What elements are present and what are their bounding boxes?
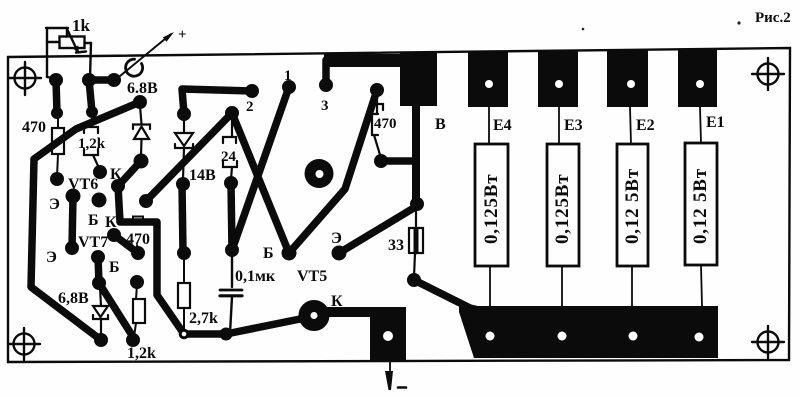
pad R470L top — [51, 107, 63, 119]
resistor E4 0,125Vt — [488, 107, 490, 144]
pad VT7 B — [91, 250, 105, 264]
svg-text:470: 470 — [126, 231, 150, 248]
svg-text:Э: Э — [331, 230, 342, 247]
wire stub — [89, 80, 92, 112]
node top-2 — [82, 73, 96, 87]
pad VT6 B — [92, 193, 107, 208]
wire VT7 base — [98, 257, 99, 283]
node 1 — [282, 80, 296, 94]
pad VD3 cathode — [176, 177, 190, 191]
svg-text:Рис.2: Рис.2 — [755, 10, 791, 26]
wire B branch — [381, 157, 416, 165]
resistor 470 mid bracket — [133, 217, 143, 253]
svg-text:К: К — [110, 166, 122, 183]
mounting hole top-right — [752, 58, 784, 90]
resistor 1,2k (top) bracket style — [84, 115, 99, 168]
resistor E1 0,125Vt — [700, 107, 701, 143]
potentiometer R 1k — [46, 28, 91, 80]
pad R1.2kB bottom — [126, 333, 140, 347]
pad VD2 cathode — [134, 154, 149, 169]
pad R470R bottom — [374, 154, 388, 168]
minus lead arrow — [385, 362, 406, 390]
svg-text:Б: Б — [88, 212, 99, 229]
pad VT5 B — [282, 246, 297, 261]
svg-text:+: + — [178, 27, 187, 43]
pad VT7 K — [107, 228, 121, 242]
svg-text:1,2k: 1,2k — [127, 345, 156, 362]
via donut — [305, 159, 334, 188]
board outline — [8, 48, 790, 362]
pad VT5 E — [332, 246, 347, 261]
wire K L-trace — [118, 186, 184, 334]
pad VT6 E — [66, 189, 81, 204]
wire node3 stub — [322, 60, 330, 85]
pad R1.2k bottom — [93, 165, 107, 179]
wire top pads bar — [89, 76, 114, 84]
capacitor C 0,1mk — [220, 255, 242, 333]
svg-text:0,12 5Вт: 0,12 5Вт — [690, 168, 711, 244]
svg-text:Е1: Е1 — [706, 114, 725, 131]
pad R33 bottom — [407, 273, 421, 287]
svg-text:6,8В: 6,8В — [58, 290, 89, 307]
diode VD3 (zener, points down) — [175, 119, 193, 179]
resistor E2 0,125Vt — [630, 107, 631, 144]
node 2 — [245, 84, 259, 98]
node top-3 — [107, 73, 121, 87]
svg-text:3: 3 — [321, 98, 329, 114]
pad R2.7k top — [177, 246, 191, 260]
wire B vertical — [412, 104, 420, 204]
pad E2 (black square) — [607, 50, 648, 107]
svg-text:470: 470 — [374, 116, 397, 132]
svg-text:24: 24 — [221, 149, 237, 165]
wire (top bus to pad B) — [324, 54, 402, 67]
transistor VT5 (ring) — [305, 306, 324, 325]
svg-text:К: К — [105, 214, 117, 231]
pad VD4 bottom — [94, 333, 108, 347]
pad R470L bottom — [50, 172, 64, 186]
mounting hole top-left — [9, 62, 41, 95]
pad R33 top — [410, 197, 424, 211]
pad VD3 anode — [177, 107, 191, 121]
pad E4 (black square) — [468, 51, 508, 107]
svg-text:Е2: Е2 — [636, 117, 655, 134]
resistor E3 0,125Vt — [558, 107, 560, 144]
resistor 470 (right, bracket style) — [372, 95, 383, 158]
svg-text:0,125Вт: 0,125Вт — [481, 174, 502, 244]
speckle dot — [737, 21, 740, 24]
pad 24 bottom — [224, 176, 238, 190]
wire E diagonal — [339, 206, 417, 253]
node 6.8V — [133, 95, 147, 109]
wire lambda trace — [146, 113, 289, 253]
svg-text:Б: Б — [109, 259, 120, 276]
node lambda left — [139, 194, 153, 208]
svg-text:В: В — [435, 116, 446, 133]
pad VT6 K — [111, 179, 125, 193]
wire base steep trace — [289, 90, 377, 253]
pad R470R top — [370, 83, 384, 97]
bottom right black bus bar — [459, 302, 718, 358]
svg-text:0,1мк: 0,1мк — [235, 268, 276, 285]
svg-text:6.8В: 6.8В — [127, 80, 158, 97]
plus lead arrow — [120, 32, 174, 76]
wire vertical bar 14V — [182, 184, 183, 253]
node 3 — [319, 78, 333, 92]
resistor 1,2k (bottom) — [136, 285, 137, 299]
svg-text:0,125Вт: 0,125Вт — [552, 174, 573, 244]
resistor 470 (top left) — [57, 116, 59, 128]
pad VD4 top — [92, 276, 106, 290]
wire bottom chain — [184, 318, 305, 334]
svg-text:К: К — [331, 293, 343, 310]
svg-text:1: 1 — [284, 68, 292, 84]
wire node2 trace — [182, 89, 252, 114]
svg-text:Б: Б — [263, 245, 274, 262]
pad E1 (black square) — [678, 49, 717, 107]
svg-text:33: 33 — [388, 237, 404, 254]
pad R1.2kB top — [130, 275, 144, 289]
speckle dot — [582, 28, 585, 31]
mounting hole bottom-right — [752, 326, 784, 358]
svg-text:470: 470 — [22, 119, 46, 136]
pad VT7 E — [65, 241, 79, 255]
capacitor 24 bracket style — [223, 118, 237, 179]
svg-text:VT7: VT7 — [78, 234, 108, 251]
pad R1.2k top — [86, 106, 98, 118]
pad E3 (black square) — [538, 50, 578, 107]
svg-text:Е4: Е4 — [493, 117, 512, 134]
wire vertical bar 24 — [231, 183, 232, 250]
svg-text:14В: 14В — [189, 167, 216, 184]
wire stub — [56, 80, 57, 113]
wire diode VD2 to K — [118, 161, 141, 186]
resistor 2,7k — [183, 257, 185, 283]
wire node1 diagonal — [232, 87, 289, 250]
node top-1 — [49, 73, 63, 87]
diode VD2 (6.8V zener) — [133, 106, 150, 156]
svg-text:1,2k: 1,2k — [78, 136, 106, 152]
wire long left trace — [31, 102, 140, 340]
open pad ring — [180, 330, 188, 338]
svg-text:VT6: VT6 — [68, 176, 98, 193]
wire VT6 emitter — [72, 196, 73, 248]
pad VT7 K2 — [131, 246, 145, 260]
bottom centre black pad with hole — [325, 307, 406, 361]
wire VT7 collector — [114, 235, 138, 253]
junction bottom — [220, 328, 233, 341]
wire 33 to bus — [414, 280, 472, 309]
diode VD4 (6,8V zener bottom) — [93, 287, 108, 336]
svg-text:Е3: Е3 — [564, 117, 583, 134]
svg-text:0,12 5Вт: 0,12 5Вт — [622, 168, 643, 244]
svg-text:VT5: VT5 — [297, 268, 327, 285]
pad C1 top — [225, 243, 239, 257]
resistor 33 — [409, 208, 423, 277]
wire base diagonal — [99, 283, 135, 340]
pad B (top centre black square) — [400, 52, 437, 106]
svg-text:2,7k: 2,7k — [189, 310, 218, 327]
svg-text:Э: Э — [49, 196, 60, 213]
svg-text:Э: Э — [46, 249, 57, 266]
svg-text:1k: 1k — [72, 16, 91, 35]
svg-text:2: 2 — [246, 99, 254, 115]
mounting hole bottom-left — [8, 328, 40, 360]
node lambda apex — [225, 106, 239, 120]
